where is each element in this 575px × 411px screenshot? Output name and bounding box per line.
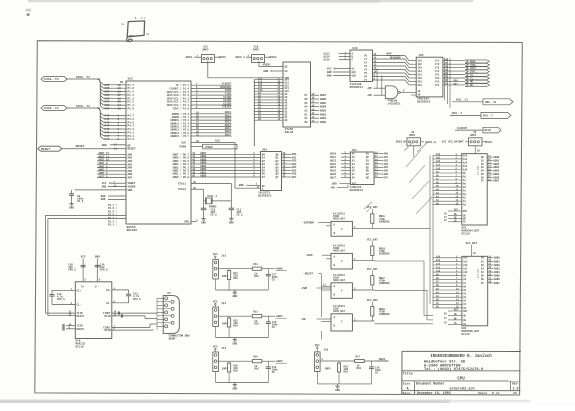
- svg-text:VCC BAT: VCC BAT: [477, 268, 480, 278]
- svg-text:~EEPROM: ~EEPROM: [302, 221, 314, 224]
- svg-text:Document Number: Document Number: [416, 381, 445, 385]
- net arrows keyboard bus: [465, 60, 489, 63]
- wire DB9 pin5 ground stub: [156, 298, 158, 330]
- decoder address inputs: [339, 53, 350, 55]
- pencil mark near transceiver: [364, 202, 372, 209]
- svg-text:U22: U22: [419, 54, 424, 57]
- connector P2 pins column B: [171, 300, 174, 303]
- CPU PSEN boxed label: [203, 144, 237, 149]
- svg-text:JMP3: JMP3: [324, 367, 331, 370]
- svg-text:GND: GND: [332, 183, 337, 186]
- svg-text:CE: CE: [285, 70, 289, 73]
- capacitor C12 loop: [52, 289, 75, 291]
- svg-text:14J5OIC1: 14J5OIC1: [388, 102, 401, 105]
- svg-text:RESET: RESET: [128, 148, 136, 151]
- svg-text:A11: A11: [436, 266, 441, 269]
- transceiver U21 74HC245 body: [350, 152, 374, 185]
- ground rail J13: [215, 327, 217, 338]
- svg-text:V+: V+: [81, 286, 85, 289]
- svg-text:~PWR: ~PWR: [301, 287, 308, 290]
- svg-text:CLKOUT: CLKOUT: [457, 127, 467, 130]
- svg-text:JMP3: JMP3: [253, 49, 260, 52]
- svg-text:ADB0: ADB0: [200, 175, 207, 178]
- svg-text:GND: GND: [95, 256, 100, 259]
- svg-text:A11: A11: [463, 267, 468, 270]
- svg-text:GND: GND: [232, 343, 237, 346]
- RAM U3 address rows: [433, 154, 462, 156]
- svg-text:SOJ5OIC3: SOJ5OIC3: [417, 101, 431, 104]
- svg-text:AD18: AD18: [186, 56, 193, 59]
- svg-text:WIDBUS8: WIDBUS8: [379, 313, 390, 316]
- output wire U19A: [352, 289, 374, 291]
- svg-text:RST: RST: [454, 209, 459, 212]
- svg-text:CPU_S: CPU_S: [133, 298, 141, 301]
- svg-text:J15: J15: [221, 255, 226, 258]
- svg-text:R10: R10: [357, 367, 362, 370]
- schmitt NAND U19A body: [331, 283, 352, 299]
- svg-text:DB9M: DB9M: [169, 338, 176, 341]
- output wire U19C: [352, 320, 374, 322]
- svg-text:ANA2: ANA2: [276, 360, 283, 363]
- resistor R17 series: [355, 359, 365, 362]
- svg-text:P8T: P8T: [105, 108, 110, 111]
- pullup resistor RB1C: [371, 276, 374, 286]
- svg-text:AD7: AD7: [292, 176, 297, 179]
- svg-text:DIL28: DIL28: [285, 131, 294, 134]
- latch U24 74LS573 body: [261, 152, 282, 191]
- output wires to RAM controls: [374, 228, 430, 230]
- buffer outputs to net arrows: [443, 60, 465, 62]
- svg-text:R11: R11: [253, 311, 258, 314]
- RAM U3 control pins: [448, 210, 462, 212]
- svg-text:P2: P2: [168, 292, 172, 295]
- ground at C10: [203, 217, 205, 219]
- svg-text:schere02.sch: schere02.sch: [449, 387, 474, 392]
- svg-text:JMP3: JMP3: [470, 134, 477, 137]
- svg-text:GND: GND: [232, 388, 237, 391]
- svg-text:CE_S: CE_S: [211, 213, 218, 216]
- svg-text:2Y4: 2Y4: [435, 84, 440, 87]
- svg-text:VCC_BAT: VCC_BAT: [367, 268, 378, 271]
- svg-text:DC0..7: DC0..7: [452, 112, 462, 115]
- latch Q output wires: [282, 153, 292, 155]
- svg-text:VCC: VCC: [315, 344, 320, 347]
- svg-text:C1-: C1-: [77, 304, 82, 307]
- buffer U22 74HC244 body: [416, 57, 443, 97]
- resistor R11 series: [229, 315, 252, 317]
- decoder U16 74LS138 body: [350, 50, 373, 82]
- svg-text:DC0..7: DC0..7: [483, 115, 493, 118]
- wire XTAL1 to crystal right node: [191, 183, 231, 185]
- svg-text:ADB1: ADB1: [320, 117, 327, 120]
- svg-text:U24: U24: [262, 148, 267, 151]
- EPROM address pin rows: [254, 79, 283, 81]
- RAM address bus verticals: [429, 155, 431, 304]
- svg-text:SOJ5OIC3: SOJ5OIC3: [258, 194, 272, 197]
- left rail wire VSS: [47, 219, 49, 316]
- svg-text:2.1: 2.1: [141, 17, 146, 20]
- svg-text:MAP: MAP: [387, 53, 392, 56]
- svg-text:R10: R10: [254, 323, 259, 326]
- svg-text:C5: C5: [272, 371, 276, 374]
- wire RAM input second pin: [322, 254, 331, 256]
- svg-text:VCC: VCC: [213, 346, 218, 349]
- resistor R16 shunt: [228, 363, 231, 372]
- svg-text:ADB3: ADB3: [320, 110, 327, 113]
- svg-text:ADB6: ADB6: [494, 278, 501, 281]
- svg-text:Size: Size: [403, 381, 411, 385]
- svg-text:CPU_S: CPU_S: [100, 269, 108, 272]
- data bus vertical wires near buffer: [444, 58, 446, 100]
- RAM U4 body: [462, 256, 488, 326]
- svg-text:ADB6: ADB6: [320, 98, 327, 101]
- flip-flop second input pins: [326, 225, 331, 227]
- svg-text:WIDBUS8: WIDBUS8: [379, 253, 390, 256]
- pencil sketch square above frame: [127, 21, 144, 37]
- svg-text:R10: R10: [344, 371, 349, 374]
- svg-text:R13: R13: [253, 263, 258, 266]
- pullup resistor RB1D: [371, 307, 374, 317]
- svg-text:VCC BAT: VCC BAT: [477, 165, 480, 175]
- ground rail J15: [215, 279, 217, 290]
- net arrow P3C0..T3: [41, 77, 67, 82]
- svg-text:GND: GND: [327, 75, 332, 78]
- CPU clock/timer output wires right: [191, 84, 232, 86]
- CPU AD bus P0 pins to latch: [191, 153, 261, 155]
- svg-text:R15: R15: [253, 356, 258, 359]
- svg-text:ADB4: ADB4: [494, 271, 501, 274]
- capacitor C16: [371, 361, 373, 366]
- svg-text:GND: GND: [102, 186, 107, 189]
- svg-text:VCC VCC_BAT: VCC VCC_BAT: [442, 141, 460, 144]
- svg-text:R1IN: R1IN: [104, 315, 111, 318]
- svg-text:C5: C5: [272, 326, 276, 329]
- wires MAX232 to DB9: [112, 312, 157, 314]
- scan smudge top edge: [28, 0, 473, 2]
- svg-text:GND: GND: [232, 295, 237, 298]
- schmitt NAND U19B body: [331, 253, 352, 269]
- svg-text:Ae: Ae: [121, 23, 125, 26]
- svg-text:J14: J14: [221, 347, 226, 350]
- svg-text:CPU_S: CPU_S: [68, 269, 76, 272]
- svg-text:Q7: Q7: [276, 176, 280, 179]
- svg-text:P4C0..T3: P4C0..T3: [76, 105, 90, 108]
- svg-text:ANA0: ANA0: [276, 268, 283, 271]
- svg-text:O1: O1: [305, 117, 309, 120]
- svg-text:VDD: VDD: [128, 189, 133, 192]
- title block outline: [402, 350, 521, 352]
- svg-text:DIL28: DIL28: [462, 232, 470, 235]
- svg-text:T2EX / P1.0: T2EX / P1.0: [172, 107, 189, 110]
- svg-text:ADB2: ADB2: [320, 113, 327, 116]
- svg-text:RST: RST: [463, 210, 468, 213]
- output wire U19D: [352, 228, 374, 230]
- scan smudge bottom edge: [0, 400, 450, 403]
- svg-text:ADB0: ADB0: [494, 257, 501, 260]
- svg-text:GND: GND: [69, 207, 74, 210]
- svg-text:PSEN: PSEN: [180, 145, 187, 148]
- net arrow P4C0..T3: [41, 106, 67, 111]
- svg-text:O7: O7: [305, 94, 309, 97]
- ground rail J14: [215, 372, 217, 383]
- svg-text:A12: A12: [463, 161, 468, 164]
- svg-text:ADB7: ADB7: [494, 282, 501, 285]
- svg-text:ANA1: ANA1: [276, 315, 283, 318]
- svg-text:6 of: 6 of: [492, 391, 500, 395]
- svg-text:A13: A13: [436, 259, 441, 262]
- svg-text:VCC: VCC: [488, 141, 493, 144]
- wire RESET to CPU: [62, 148, 113, 150]
- svg-text:ALE: ALE: [181, 141, 186, 144]
- svg-text:ANA3: ANA3: [379, 358, 386, 361]
- svg-text:~PSEN: ~PSEN: [204, 146, 213, 149]
- svg-text:O3: O3: [305, 110, 309, 113]
- resistor R13 series: [229, 268, 252, 270]
- svg-text:RESET: RESET: [41, 148, 50, 151]
- svg-text:P3.1 /: P3.1 /: [108, 224, 118, 227]
- RAM U4 data rows: [488, 257, 494, 259]
- svg-text:Title: Title: [403, 372, 413, 376]
- svg-text:Dezember 19, 1993: Dezember 19, 1993: [417, 391, 451, 395]
- svg-text:A10: A10: [436, 270, 441, 273]
- svg-text:C2+: C2+: [106, 289, 111, 292]
- svg-text:ADDR15 / P2.7: ADDR15 / P2.7: [170, 135, 189, 138]
- resistor R18 shunt: [337, 363, 340, 372]
- svg-text:A14: A14: [463, 257, 468, 260]
- svg-text:SOJ5OIC3: SOJ5OIC3: [350, 189, 364, 192]
- wire J8 to RAM VCC: [474, 146, 476, 154]
- gate output wire to buffer enables: [400, 91, 416, 93]
- ground rail J16: [316, 371, 318, 384]
- svg-text:DIL28: DIL28: [462, 333, 470, 336]
- svg-text:~WR: ~WR: [367, 94, 372, 97]
- svg-text:4093_BAT: 4093_BAT: [333, 279, 346, 282]
- wire XTAL2 to crystal left node: [191, 188, 204, 190]
- svg-text:2A4: 2A4: [418, 84, 423, 87]
- schmitt NAND U19D body: [331, 221, 352, 236]
- svg-text:R17: R17: [356, 356, 361, 359]
- svg-text:VCC_BAT: VCC_BAT: [367, 299, 378, 302]
- svg-text:ADB5: ADB5: [320, 102, 327, 105]
- capacitor C18: [267, 316, 269, 321]
- sheet border frame: [35, 41, 523, 395]
- ground at C9: [71, 202, 73, 204]
- capacitor C19: [267, 361, 269, 366]
- svg-text:CE_S: CE_S: [77, 200, 84, 203]
- svg-text:~RESET: ~RESET: [303, 273, 313, 276]
- MAX232 T2IN R2OUT stubs: [66, 325, 75, 327]
- svg-text:RCLK: RCLK: [485, 129, 492, 132]
- capacitor C17: [267, 269, 269, 274]
- svg-text:C5: C5: [375, 372, 379, 375]
- RAM U4 address rows: [433, 257, 462, 259]
- svg-text:D7: D7: [262, 176, 266, 179]
- resistor R12 shunt: [228, 318, 231, 327]
- EPROM PSEN/OE wire from J10: [258, 61, 260, 66]
- svg-text:A: A: [135, 17, 137, 20]
- svg-text:P3C0..T3: P3C0..T3: [76, 76, 90, 79]
- svg-text:ADC7: ADC7: [330, 176, 337, 179]
- svg-text:XTAL1: XTAL1: [178, 182, 186, 185]
- svg-text:~PSEN: ~PSEN: [262, 63, 270, 66]
- svg-text:OE: OE: [285, 65, 289, 68]
- svg-text:VCC_BAT: VCC_BAT: [367, 206, 378, 209]
- svg-text:GND: GND: [335, 389, 340, 392]
- svg-text:ADB1: ADB1: [494, 260, 501, 263]
- pencil square tick to border: [127, 38, 133, 42]
- svg-text:G2A: G2A: [352, 71, 357, 74]
- svg-text:ADB7: ADB7: [320, 94, 327, 97]
- wire J16 to divider node: [320, 360, 355, 362]
- resistor R15 series: [229, 360, 252, 362]
- svg-text:CPU_S: CPU_S: [57, 298, 65, 301]
- schmitt NAND U19C body: [331, 314, 352, 331]
- scan mark top-left dots: [26, 9, 32, 12]
- svg-text:Date:: Date:: [403, 391, 412, 395]
- svg-text:~RAM: ~RAM: [306, 254, 313, 257]
- pencil hatch strokes: [406, 150, 421, 167]
- pullup resistor RB1E: [371, 214, 374, 224]
- svg-text:A14: A14: [436, 256, 441, 259]
- svg-text:R2OUT: R2OUT: [77, 328, 85, 331]
- jumper J13 wire to divider: [218, 315, 229, 317]
- decoupling cap C9 at VAGND: [75, 189, 126, 191]
- svg-text:ADC..13: ADC..13: [485, 101, 497, 104]
- svg-text:A13: A13: [463, 260, 468, 263]
- svg-text:VCC: VCC: [213, 253, 218, 256]
- svg-text:GND: GND: [101, 198, 106, 201]
- CPU U1 80535 body: [126, 81, 191, 224]
- svg-text:RST: RST: [463, 310, 468, 313]
- svg-text:A12: A12: [436, 160, 441, 163]
- NAND gate U17 74HC00: [385, 86, 398, 99]
- svg-text:~RD: ~RD: [330, 186, 335, 189]
- svg-text:R2IN: R2IN: [104, 329, 111, 332]
- svg-text:VCC: VCC: [128, 78, 133, 81]
- svg-text:P4C0..T3: P4C0..T3: [44, 107, 59, 110]
- svg-text:VCC_BAT: VCC_BAT: [466, 242, 478, 245]
- RAM U4 control pins: [448, 310, 462, 312]
- svg-text:VPD: VPD: [184, 220, 189, 223]
- svg-text:O5: O5: [305, 102, 309, 105]
- svg-text:SOJ5OIC1: SOJ5OIC1: [350, 86, 364, 89]
- svg-text:GND: GND: [102, 144, 107, 147]
- svg-text:A10: A10: [463, 271, 468, 274]
- wire ALE down to latch LE: [234, 143, 236, 189]
- svg-text:R10: R10: [233, 277, 238, 280]
- wires rail to MAX232 inputs: [46, 312, 76, 314]
- CPU port P1 pin fan wires: [97, 79, 100, 106]
- svg-text:C1+: C1+: [77, 289, 82, 292]
- svg-text:DB7: DB7: [454, 83, 459, 86]
- svg-text:~RESET: ~RESET: [74, 145, 85, 148]
- svg-text:~OD: ~OD: [301, 318, 306, 321]
- CPU port P4 pin fan wires: [97, 108, 100, 136]
- svg-text:P1.0: P1.0: [128, 108, 135, 111]
- svg-text:R10: R10: [233, 325, 238, 328]
- svg-text:ALE: ALE: [215, 140, 220, 143]
- capacitor C1A: [95, 264, 100, 266]
- MAX232 U18 body: [75, 282, 112, 339]
- svg-text:4a: 4a: [146, 33, 150, 36]
- wire VPD from left rail: [46, 214, 127, 216]
- svg-text:J16: J16: [323, 348, 328, 351]
- transceiver A-side wires and labels: [341, 153, 350, 155]
- svg-text:GND: GND: [263, 70, 268, 73]
- RAM U3 body: [462, 154, 487, 225]
- left rail wire VPD: [45, 215, 47, 313]
- svg-text:33: 33: [118, 108, 122, 111]
- svg-text:Tel.: (0043) 07475/52170-0: Tel.: (0043) 07475/52170-0: [424, 367, 484, 372]
- svg-text:U16: U16: [353, 47, 358, 50]
- wire J9 to bus below: [413, 146, 415, 157]
- svg-text:O2: O2: [305, 113, 309, 116]
- wires gate inputs to decoder enables: [376, 69, 378, 89]
- svg-text:WIDBUS8: WIDBUS8: [379, 220, 390, 223]
- svg-text:CE_S: CE_S: [237, 213, 244, 216]
- capacitor C1B: [81, 264, 86, 266]
- svg-text:VCC_BAT: VCC_BAT: [367, 238, 378, 241]
- svg-text:4093_BAT: 4093_BAT: [333, 310, 346, 313]
- EPROM VCC wire from J11: [207, 61, 209, 78]
- RAM U3 data rows: [487, 156, 493, 158]
- svg-text:AD18_3: AD18_3: [235, 56, 245, 59]
- svg-text:VCC: VCC: [81, 256, 86, 259]
- svg-text:G2B: G2B: [352, 75, 357, 78]
- svg-text:JMP3: JMP3: [409, 134, 416, 137]
- svg-text:68LDCC: 68LDCC: [127, 229, 138, 232]
- svg-text:JMP3: JMP3: [202, 49, 209, 52]
- jumper J15 wire to divider: [218, 268, 229, 270]
- svg-text:R1OUT: R1OUT: [77, 315, 85, 318]
- svg-text:4093_BAT: 4093_BAT: [333, 250, 346, 253]
- svg-text:VCC: VCC: [221, 56, 226, 59]
- transceiver B-side wires and labels: [374, 153, 383, 155]
- svg-text:AC15: AC15: [323, 59, 330, 62]
- capacitor C13 loop: [112, 289, 129, 291]
- svg-text:R10: R10: [254, 275, 259, 278]
- connector P2 pins column A: [165, 297, 168, 300]
- svg-text:REV: REV: [512, 381, 518, 385]
- svg-text:C5: C5: [272, 279, 276, 282]
- title block divider lines: [402, 370, 521, 372]
- CPU analog AN0-AN7 pin rows: [97, 153, 126, 155]
- svg-text:ADB5: ADB5: [494, 275, 501, 278]
- svg-text:R10: R10: [233, 370, 238, 373]
- CPU ADDR8-15 wires right: [191, 113, 232, 115]
- ground at C11: [230, 217, 232, 219]
- svg-text:Y7: Y7: [364, 79, 368, 82]
- capacitor C10: [203, 201, 205, 208]
- jumper J14 wire to divider: [218, 360, 229, 362]
- svg-text:DIL16: DIL16: [76, 346, 84, 349]
- svg-text:AN7: AN7: [128, 177, 133, 180]
- wire from gate U19C down to J16 region: [320, 331, 322, 339]
- capacitor C11: [230, 201, 232, 208]
- svg-text:VCC: VCC: [272, 56, 277, 59]
- EPROM data output rows: [311, 94, 320, 96]
- svg-text:20: 20: [513, 391, 517, 395]
- svg-text:BAT: BAT: [459, 140, 464, 143]
- svg-text:WIDBUS8: WIDBUS8: [379, 282, 390, 285]
- pullup resistor RB1B: [371, 246, 374, 256]
- svg-text:O0: O0: [305, 121, 309, 124]
- svg-text:P3C0..T3: P3C0..T3: [44, 78, 59, 81]
- svg-text:U21: U21: [352, 149, 357, 152]
- svg-text:V-: V-: [95, 286, 99, 289]
- svg-text:GND: GND: [239, 184, 244, 187]
- EPROM U23 27256 body: [283, 62, 311, 127]
